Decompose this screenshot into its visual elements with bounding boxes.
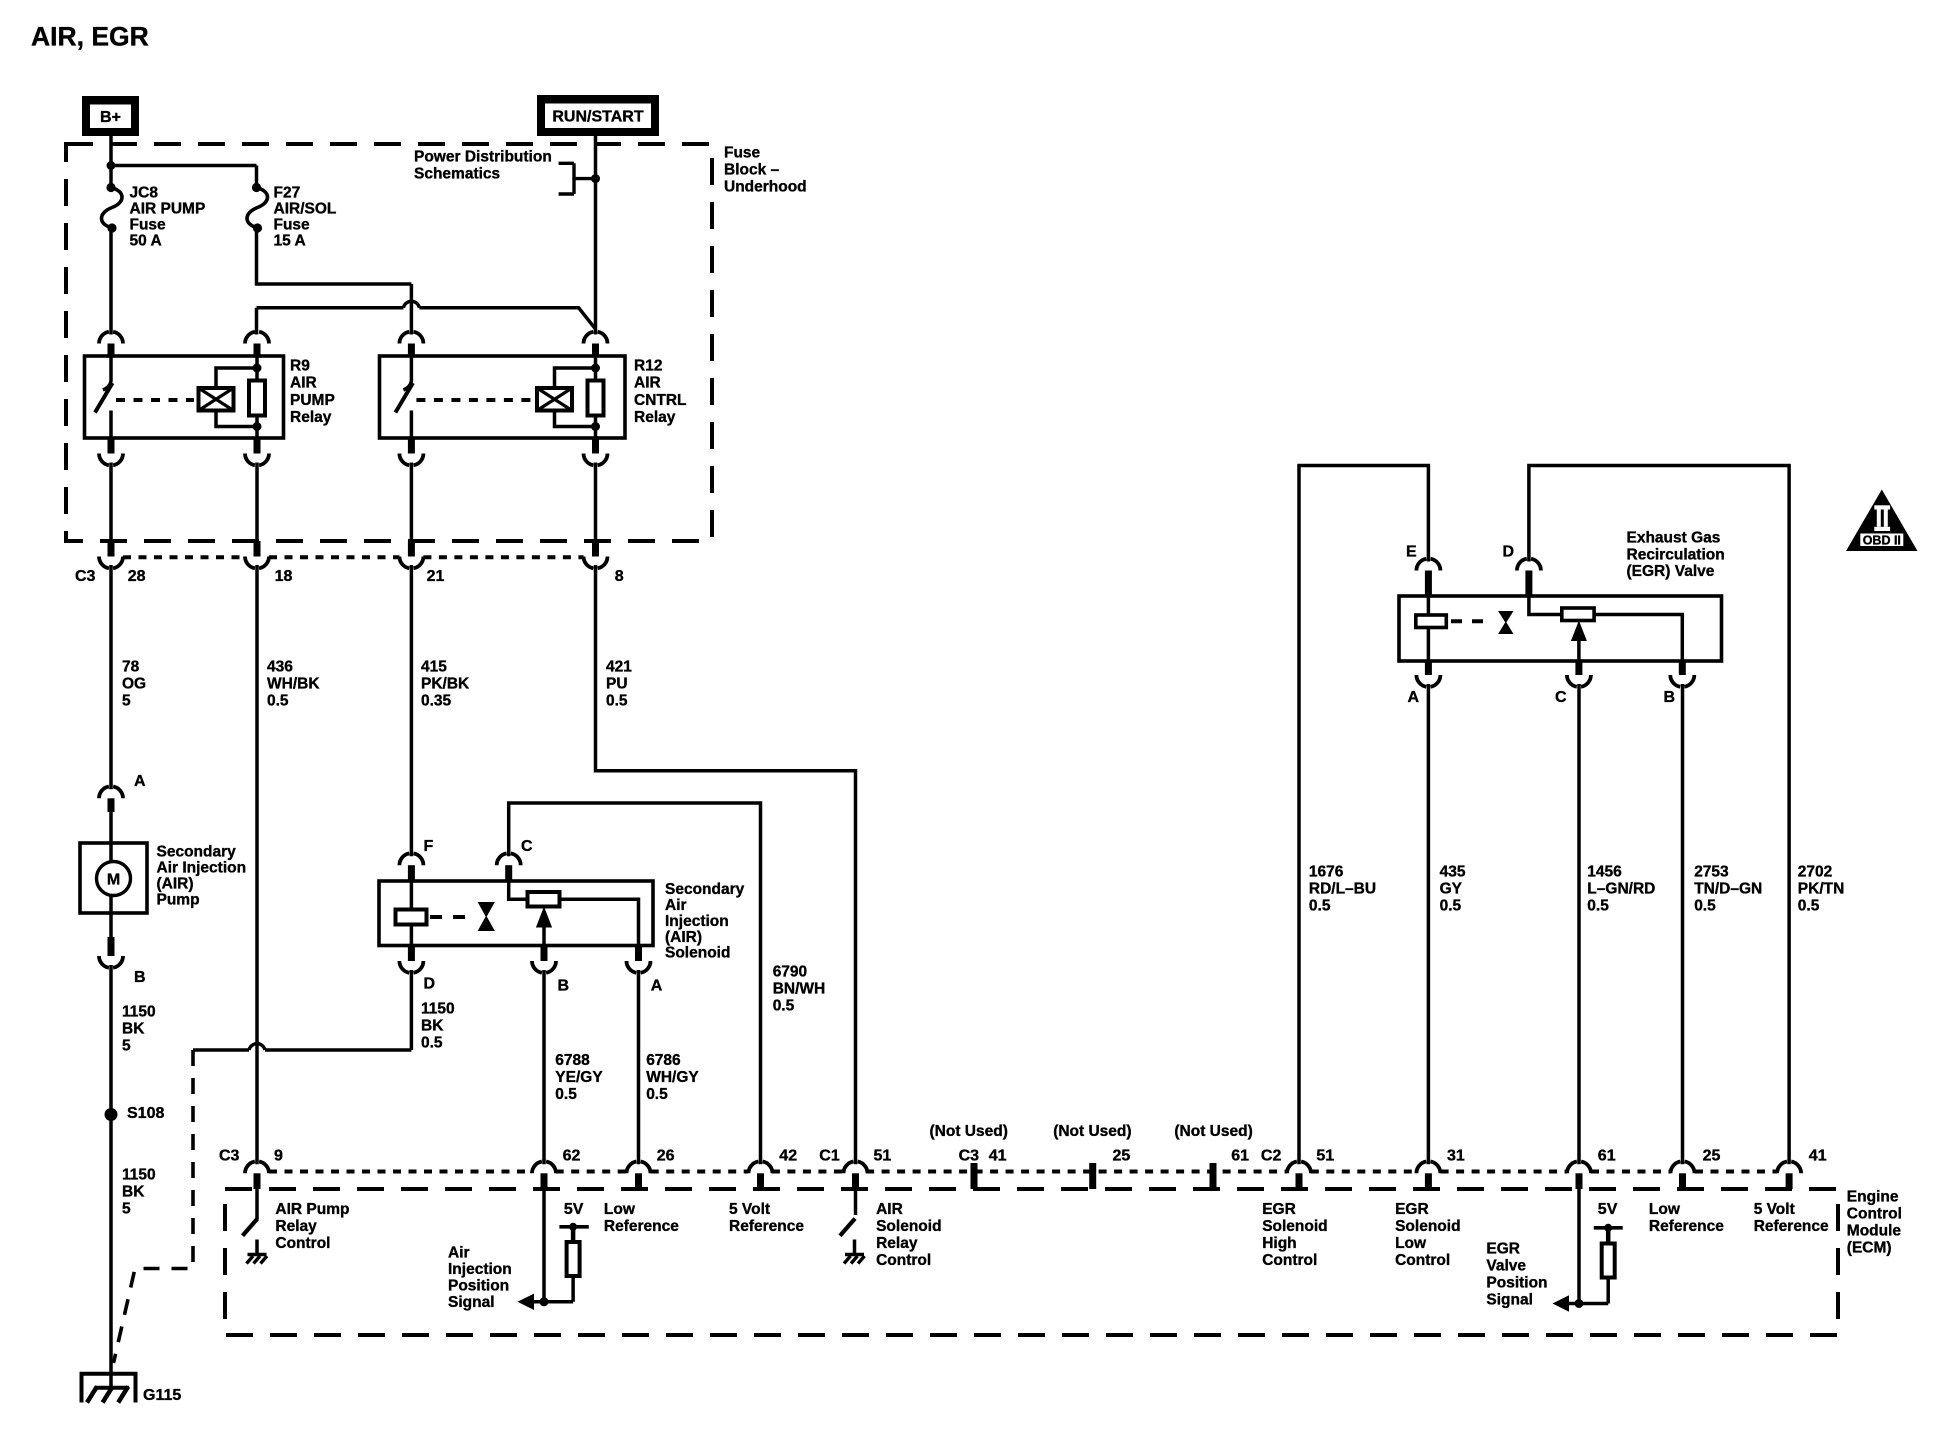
wire hop over F27 feed (403, 301, 419, 307)
connector ECM pin C2-51 (1287, 1162, 1311, 1174)
connector ECM pin 42 (749, 1162, 773, 1174)
solenoid coil (396, 910, 427, 925)
connector R9 coil bottom (254, 438, 261, 454)
wire down to F27 fuse (255, 166, 259, 188)
svg-text:18: 18 (275, 568, 293, 585)
valve symbol solenoid (479, 903, 495, 931)
arrow EGR valve position signal (1563, 1302, 1608, 1306)
svg-text:28: 28 (128, 568, 146, 585)
svg-text:42: 42 (779, 1148, 797, 1165)
ground G115 (82, 1374, 136, 1403)
5V supply bar 61 (1594, 1226, 1623, 1230)
svg-text:S108: S108 (127, 1105, 164, 1122)
connector solenoid pin B (541, 946, 548, 962)
connector ECM unused pin 41 (971, 1163, 978, 1189)
svg-text:(Not Used): (Not Used) (1053, 1123, 1131, 1140)
connector EGR pin B (1679, 661, 1686, 675)
svg-text:51: 51 (874, 1148, 892, 1165)
valve symbol EGR (1499, 612, 1513, 634)
connector solenoid pin C (497, 853, 521, 865)
svg-text:Exhaust GasRecirculation(EGR): Exhaust GasRecirculation(EGR) Valve (1627, 530, 1725, 581)
solenoid Secondary Air Injection (AIR) Solenoid (379, 881, 653, 946)
dashed actuation EGR (1451, 619, 1489, 623)
fuse block underhood dashed boundary (66, 144, 712, 541)
connector ECM pin 41 (1777, 1162, 1801, 1174)
fuse JC8 AIR PUMP 50A (106, 183, 115, 192)
svg-text:62: 62 (563, 1148, 581, 1165)
svg-text:(Not Used): (Not Used) (1174, 1123, 1252, 1140)
svg-text:61: 61 (1231, 1148, 1249, 1165)
wire branch to F27 (111, 164, 257, 168)
svg-text:B+: B+ (100, 109, 121, 126)
wire RUN/START down to R12 coil (594, 136, 598, 335)
svg-text:25: 25 (1113, 1148, 1131, 1165)
connector AIR pump pin B (108, 937, 115, 956)
wire sensor to pin A (560, 899, 639, 945)
wire 1676 RD/L-BU ECM C2-51 to EGR E (1299, 466, 1428, 1165)
connector R12 coil bottom (592, 438, 599, 454)
motor Secondary Air Injection (AIR) Pump (80, 843, 147, 913)
svg-text:B: B (1664, 689, 1676, 706)
connector R9 switch top (99, 332, 123, 344)
connector R12 switch top (399, 332, 423, 344)
svg-text:41: 41 (989, 1148, 1007, 1165)
wire sensor to EGR B (1594, 615, 1682, 662)
junction signal node 61 (1575, 1299, 1584, 1308)
EGR coil (1416, 615, 1447, 628)
position sensor EGR (1562, 608, 1594, 621)
svg-text:41: 41 (1809, 1148, 1827, 1165)
connector ECM pin 31 (1416, 1162, 1440, 1174)
svg-text:C3: C3 (959, 1148, 980, 1165)
svg-text:B: B (134, 969, 146, 986)
svg-text:C3: C3 (219, 1148, 240, 1165)
connector EGR pin D (1517, 559, 1541, 571)
svg-text:C3: C3 (75, 568, 96, 585)
connector ECM unused pin 25 (1089, 1163, 1096, 1189)
svg-text:F: F (424, 838, 434, 855)
svg-text:8: 8 (615, 568, 624, 585)
connector solenoid pin F (399, 853, 423, 865)
connector ECM pin 61 (1567, 1162, 1591, 1174)
wire 1150 BK solenoid D to ground path (193, 970, 411, 1050)
wire JC8 to R9 switch (109, 228, 113, 335)
relay R12 AIR CNTRL (380, 356, 626, 438)
junction at B+ branch (107, 161, 116, 170)
junction 5V bar 61 (1604, 1224, 1612, 1232)
wire 421 PU pin8 to ECM C1-51 (596, 565, 856, 1164)
svg-text:A: A (1408, 689, 1420, 706)
node B+ supply box (82, 96, 139, 136)
wire AIR pump to pin B (109, 913, 113, 937)
connector AIR pump pin A (99, 787, 123, 799)
connector EGR pin A (1425, 661, 1432, 675)
connector row ECM dotted line (269, 1170, 532, 1174)
fuse F27 AIR/SOL 15A (252, 183, 261, 192)
splice S108 (105, 1108, 118, 1121)
wire 6788 YE/GY to ECM 62 (542, 970, 546, 1164)
connector ECM pin 62 (532, 1162, 556, 1174)
svg-text:31: 31 (1447, 1148, 1465, 1165)
arrow air injection position signal (528, 1300, 573, 1304)
svg-text:RUN/START: RUN/START (552, 109, 643, 126)
svg-text:9: 9 (274, 1148, 283, 1165)
junction 5V bar 62 (569, 1223, 577, 1231)
svg-text:G115: G115 (143, 1387, 181, 1404)
svg-text:E: E (1406, 544, 1417, 561)
valve Exhaust Gas Recirculation (EGR) Valve (1399, 596, 1722, 661)
junction on RUN/START wire (591, 174, 600, 183)
connector R12 switch bottom (408, 438, 415, 454)
wire EGR D to position sensor (1529, 596, 1562, 615)
connector R9 switch bottom (108, 438, 115, 454)
wire 6786 WH/GY to ECM 26 (637, 970, 641, 1164)
connector EGR pin E (1416, 559, 1440, 571)
svg-text:OBD II: OBD II (1863, 534, 1901, 548)
connector ECM pin 25 (1671, 1162, 1695, 1174)
connector ECM pin C1-51 (844, 1162, 868, 1174)
connector ECM pin 26 (627, 1162, 651, 1174)
svg-text:61: 61 (1598, 1148, 1616, 1165)
wire B+ to JC8 fuse (109, 136, 113, 187)
svg-text:21: 21 (427, 568, 445, 585)
junction signal node 62 (540, 1297, 549, 1306)
svg-text:51: 51 (1316, 1148, 1334, 1165)
connector R12 coil top (584, 332, 608, 344)
ECM dashed boundary (225, 1189, 1838, 1335)
wire RUN/START feed to R9 coil (257, 308, 596, 335)
svg-text:(Not Used): (Not Used) (930, 1123, 1008, 1140)
connector C3 row dotted line (123, 555, 245, 559)
wire F27 to R12 switch (257, 228, 412, 335)
wire 2753 TN/D-GN EGR B to ECM 25 (1681, 684, 1685, 1164)
svg-text:A: A (651, 978, 663, 995)
wire pin C to position sensor (509, 881, 528, 899)
resistor 5V pullup 62 (571, 1276, 575, 1302)
connector solenoid pin A (635, 946, 642, 962)
wire dashed ground path to G115 (114, 1050, 194, 1363)
wire 78 OG pin28 to AIR pump (109, 565, 113, 789)
wiper arrow EGR (1577, 638, 1581, 661)
wire 435 GY EGR A to ECM 31 (1427, 684, 1431, 1164)
wire ECM pin 62 to signal node (542, 1189, 546, 1302)
svg-text:C: C (1555, 689, 1567, 706)
bracket to power distribution (559, 163, 596, 194)
connector C3 pin 18 (254, 541, 261, 557)
connector EGR pin C (1575, 661, 1582, 675)
ground AIR solenoid relay control (845, 1253, 864, 1257)
node RUN/START supply box (537, 95, 659, 136)
wire 436 WH/BK pin18 to ECM pin9 (255, 565, 259, 1164)
wire 2702 PK/TN ECM 41 to EGR D (1529, 466, 1789, 1165)
svg-text:AIR, EGR: AIR, EGR (31, 22, 149, 52)
wire 6790 BN/WH solenoid C to ECM 42 (509, 803, 761, 1164)
connector solenoid pin D (408, 946, 415, 962)
svg-text:C1: C1 (819, 1148, 840, 1165)
resistor 5V pullup 61 (1606, 1278, 1610, 1304)
svg-text:A: A (134, 773, 146, 790)
svg-text:C: C (521, 838, 533, 855)
transistor switch AIR solenoid relay control (854, 1189, 858, 1215)
svg-text:26: 26 (657, 1148, 675, 1165)
position sensor solenoid (528, 892, 560, 907)
svg-text:5V: 5V (1598, 1201, 1618, 1218)
wire hop over 436 wire (249, 1044, 265, 1050)
svg-text:C2: C2 (1261, 1148, 1282, 1165)
connector C3 pin 28 (108, 541, 115, 557)
connector ECM unused pin 61 (1210, 1163, 1217, 1189)
relay R9 AIR PUMP (85, 356, 284, 438)
dashed actuation solenoid (430, 915, 476, 919)
svg-text:D: D (424, 976, 436, 993)
svg-text:B: B (558, 978, 570, 995)
wiper arrow solenoid (542, 925, 546, 946)
connector C3 pin 8 (592, 541, 599, 557)
connector C3 pin 21 (408, 541, 415, 557)
5V supply bar 62 (559, 1225, 588, 1229)
wire 1456 L-GN/RD EGR C to ECM 61 (1577, 684, 1581, 1164)
ground AIR pump relay control (248, 1253, 267, 1257)
svg-text:M: M (107, 872, 120, 889)
svg-text:25: 25 (1703, 1148, 1721, 1165)
svg-text:D: D (1503, 544, 1515, 561)
connector R9 coil top (245, 332, 269, 344)
transistor switch AIR pump relay control (255, 1189, 259, 1219)
wire 1150 BK pump ground (109, 965, 113, 1388)
svg-text:5V: 5V (564, 1201, 584, 1218)
connector ECM pin 9 (245, 1162, 269, 1174)
OBD II marker (1846, 490, 1918, 552)
wire 415 PK/BK pin21 to AIR solenoid F (410, 565, 414, 856)
wire ECM pin 61 to signal node (1577, 1189, 1581, 1304)
